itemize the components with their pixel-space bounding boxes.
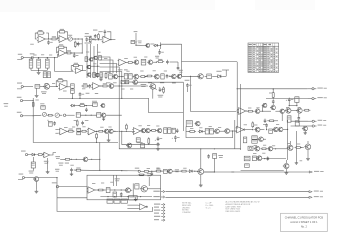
resistor R82 — [124, 74, 128, 79]
transistor Q12 — [108, 129, 113, 133]
resistor R19 — [127, 62, 134, 64]
resistor R93 — [31, 157, 35, 171]
potentiometer VR2 — [42, 112, 46, 116]
wire — [114, 85, 123, 86]
transistor Q53 — [100, 104, 105, 108]
wire — [100, 72, 122, 85]
svg-text:REF DWG 10423: REF DWG 10423 — [226, 211, 241, 213]
junction — [145, 76, 147, 77]
wire — [150, 130, 151, 131]
resistor R97 — [138, 173, 152, 176]
output terminal J15 — [309, 196, 323, 198]
capacitor C17 — [172, 135, 180, 139]
resistor R73 — [97, 189, 104, 191]
wire — [67, 87, 72, 89]
resistor R43 — [164, 128, 167, 134]
transistor Q45 — [254, 109, 260, 114]
wire — [54, 57, 74, 71]
op-amp U12 — [87, 187, 96, 193]
notes column 3 — [226, 201, 260, 213]
wire — [96, 138, 97, 143]
connector pin label — [153, 196, 164, 198]
input terminal J4 — [17, 83, 26, 90]
resistor R5 — [89, 36, 94, 43]
capacitor C24 — [286, 98, 294, 102]
wire — [290, 141, 308, 145]
enclosure box — [57, 198, 153, 212]
wire — [122, 98, 184, 112]
resistor R32 — [47, 114, 54, 116]
wire — [57, 54, 59, 57]
capacitor C1 — [47, 40, 52, 44]
wire — [100, 85, 102, 87]
resistor R45 — [136, 138, 140, 142]
transistor Q38 — [87, 73, 91, 77]
label — [63, 88, 85, 91]
wire — [262, 158, 286, 159]
wire — [99, 57, 110, 73]
svg-text:% = 5: % = 5 — [206, 207, 211, 209]
terminal J13 — [52, 182, 61, 187]
resistor R55 — [210, 129, 214, 134]
resistor R41 — [96, 133, 98, 140]
label — [175, 169, 179, 172]
transistor Q26 — [258, 137, 264, 142]
wire — [71, 52, 83, 53]
label — [158, 95, 164, 98]
resistor R44 — [168, 128, 171, 134]
label — [155, 56, 159, 59]
resistor R1 — [36, 30, 45, 34]
resistor R9 — [57, 44, 66, 48]
label — [29, 171, 34, 174]
transistor Q16 — [126, 143, 132, 148]
resistor R80 — [105, 72, 107, 79]
output terminal J14 — [309, 191, 323, 193]
wire — [31, 68, 47, 71]
resistor R20 — [141, 59, 146, 65]
label box — [244, 156, 250, 161]
label — [92, 182, 113, 184]
transistor Q47 — [270, 105, 275, 109]
resistor R14 — [29, 59, 33, 68]
op-amp U16 — [237, 108, 247, 115]
transistor Q24 — [285, 108, 291, 113]
resistor R39 — [77, 132, 81, 135]
label — [287, 143, 300, 144]
connector pin label — [154, 209, 165, 211]
resistor R75 — [113, 192, 117, 197]
connector pin label — [154, 212, 165, 214]
wire — [129, 82, 183, 131]
resistor R36 — [97, 113, 101, 118]
ground — [199, 183, 203, 187]
transistor Q28 — [267, 147, 272, 151]
label box — [114, 199, 120, 203]
output terminal J3 — [307, 97, 326, 100]
transistor Q29 — [287, 145, 293, 150]
transistor Q7 — [43, 84, 50, 90]
ground — [156, 147, 160, 151]
wire — [135, 33, 136, 46]
wire — [96, 189, 126, 190]
ground — [99, 75, 103, 81]
transistor Q43 — [171, 74, 177, 79]
resistor R28 — [101, 83, 108, 87]
wire — [237, 88, 308, 89]
transistor Q8 — [108, 84, 114, 89]
resistor R29 — [121, 80, 125, 83]
resistor R88 — [126, 124, 128, 132]
wire — [83, 70, 86, 72]
transistor Q6 — [197, 74, 203, 79]
transistor Q40 — [112, 74, 118, 79]
resistor R83 — [129, 74, 133, 79]
resistor R46 — [141, 144, 145, 148]
wire — [245, 129, 253, 130]
wire — [273, 88, 274, 105]
transistor Q42 — [153, 74, 159, 79]
wire — [35, 181, 37, 189]
resistor R57 — [269, 129, 273, 133]
resistor R26 — [71, 89, 75, 93]
wire — [32, 98, 34, 120]
wire — [165, 196, 309, 198]
label — [244, 124, 280, 125]
label — [218, 155, 223, 158]
resistor R78 — [93, 73, 96, 78]
connector pin label — [154, 203, 165, 205]
diode D7 — [30, 153, 36, 156]
wire — [113, 131, 118, 132]
wire — [25, 115, 42, 116]
ground — [295, 160, 303, 164]
label — [253, 153, 265, 154]
label — [134, 30, 138, 33]
label — [286, 106, 301, 109]
wire — [200, 149, 202, 183]
transistor Q31 — [256, 156, 262, 161]
resistor R23 — [35, 85, 40, 89]
wire — [148, 177, 150, 186]
wire — [291, 111, 299, 123]
capacitor C32 — [176, 129, 179, 133]
resistor R70 — [143, 170, 150, 172]
scan shading — [0, 0, 315, 12]
resistor R42b — [97, 130, 104, 132]
resistor R77 — [72, 63, 80, 67]
ground — [285, 171, 289, 175]
wire — [263, 110, 280, 112]
output terminal J9 — [308, 125, 326, 128]
capacitor C18 — [155, 137, 163, 142]
label — [118, 68, 128, 71]
potentiometer VR1 — [67, 35, 75, 41]
wire — [25, 100, 34, 101]
wire — [204, 171, 215, 173]
capacitor C25 — [298, 116, 301, 120]
capacitor C21 — [70, 168, 73, 172]
wire — [174, 140, 176, 142]
wire — [281, 113, 283, 121]
wire — [122, 131, 160, 144]
resistor R38 — [77, 128, 81, 131]
transistor Q5 — [136, 44, 154, 48]
label — [190, 126, 221, 129]
resistor R3 — [58, 29, 66, 33]
resistor R66 — [295, 147, 302, 149]
wire — [26, 57, 58, 58]
wire — [56, 81, 67, 87]
label — [55, 169, 59, 172]
transistor Q18 — [195, 121, 201, 126]
transistor Q11 — [103, 129, 108, 133]
resistor R42 — [150, 130, 157, 132]
wire — [100, 64, 117, 74]
capacitor C11 — [79, 92, 85, 96]
op-amp U17 — [43, 152, 51, 157]
transistor Q35 — [138, 204, 147, 210]
transistor Q52 — [140, 186, 147, 192]
transistor Q14 — [145, 128, 150, 132]
resistor R22 — [207, 74, 212, 79]
svg-text:CHANNEL C1 REGULATOR PCB: CHANNEL C1 REGULATOR PCB — [285, 216, 324, 220]
capacitor C7 — [30, 53, 35, 59]
transistor Q51 — [302, 126, 308, 131]
wire — [100, 196, 152, 197]
transistor Q9 — [132, 80, 138, 85]
resistor R49 — [64, 158, 71, 160]
label — [115, 178, 120, 181]
op-amp U1 — [37, 36, 47, 43]
wire — [58, 32, 68, 39]
wire — [214, 158, 215, 172]
label — [141, 84, 147, 87]
wire — [56, 178, 58, 198]
op-amp U14 — [74, 68, 82, 74]
capacitor C4 — [93, 30, 97, 39]
resistor R54 — [205, 129, 209, 134]
resistor R84 — [139, 76, 146, 78]
wire — [47, 120, 49, 121]
resistor R16 — [46, 59, 50, 68]
capacitor C15 — [40, 103, 45, 109]
resistor R81 — [109, 74, 113, 79]
wire — [222, 70, 229, 76]
capacitor C8 — [166, 60, 169, 64]
resistor R24 — [56, 78, 64, 82]
wire — [266, 128, 267, 131]
wire — [231, 171, 234, 173]
label box — [121, 199, 127, 203]
transistor Q19 — [214, 129, 220, 134]
enclosure box — [179, 62, 237, 77]
wire — [291, 120, 308, 122]
transistor Q10 — [149, 84, 157, 90]
ground — [70, 172, 73, 175]
capacitor C33 — [264, 119, 267, 123]
capacitor C30 — [166, 74, 169, 78]
label — [138, 125, 159, 126]
wire — [26, 86, 34, 88]
op-amp U11 — [235, 126, 245, 133]
op-amp U3 — [102, 36, 112, 43]
wire — [241, 169, 284, 171]
label — [93, 58, 107, 64]
op-amp U8 — [59, 128, 69, 135]
resistor R85 — [146, 75, 153, 77]
op-amp U4 — [57, 50, 67, 57]
wire — [291, 125, 308, 127]
ground — [37, 70, 41, 74]
label — [107, 70, 167, 72]
op-amp U2 — [58, 36, 68, 43]
wire — [186, 130, 237, 131]
wire — [57, 47, 67, 53]
terminal J6 — [17, 112, 25, 117]
resistor R6 — [98, 33, 100, 40]
wire — [257, 138, 266, 140]
table frame — [248, 43, 279, 72]
resistor R27 — [81, 83, 89, 87]
wire — [283, 129, 288, 130]
op-amp U15 — [87, 128, 97, 135]
resistor R67 — [252, 156, 256, 161]
wire — [55, 130, 58, 134]
transistor Q4 — [147, 60, 153, 65]
wire — [246, 110, 247, 112]
connector pin label — [154, 206, 165, 208]
capacitor C28 — [151, 172, 154, 176]
transistor Q32 — [283, 163, 289, 168]
transistor Q54 — [100, 113, 105, 117]
label — [254, 145, 276, 146]
ground — [306, 156, 310, 160]
transistor Q48 — [279, 109, 284, 113]
transistor Q13 — [140, 128, 145, 132]
label — [106, 82, 176, 83]
capacitor C16 — [85, 108, 88, 112]
resistor R18 — [47, 72, 50, 78]
potentiometer VR3 — [55, 113, 59, 117]
notes column 1 — [182, 202, 192, 214]
diode D6 — [188, 170, 194, 173]
wire — [260, 129, 264, 131]
wire — [71, 66, 82, 71]
capacitor C12 — [89, 84, 92, 88]
title block — [281, 213, 328, 231]
resistor R86 — [161, 74, 164, 79]
wire — [60, 159, 100, 160]
wire — [186, 88, 188, 92]
resistor R96 — [295, 121, 299, 126]
wire — [130, 189, 160, 190]
wire — [143, 171, 198, 172]
resistor R21 — [157, 59, 165, 63]
transistor Q34 — [125, 188, 131, 193]
op-amp U9 — [132, 128, 142, 135]
capacitor C6 — [73, 53, 79, 57]
wire — [74, 170, 139, 172]
label box — [129, 196, 138, 200]
resistor R76 — [135, 184, 139, 189]
transistor Q3 — [133, 60, 139, 65]
svg-text:control 1 SHEET 1 OF 1: control 1 SHEET 1 OF 1 — [290, 220, 318, 224]
label — [86, 52, 101, 53]
junction — [91, 66, 100, 67]
wire — [153, 62, 157, 63]
resistor R98 — [32, 100, 39, 108]
wire — [67, 114, 74, 116]
terminal J12 — [18, 174, 27, 180]
wire — [119, 127, 240, 149]
resistor R33 — [78, 103, 86, 107]
capacitor C31 — [81, 120, 88, 125]
transistor Q33 — [197, 169, 204, 175]
ground — [35, 189, 39, 193]
label — [100, 127, 111, 128]
label — [30, 43, 34, 46]
wire — [60, 186, 87, 188]
label box — [107, 199, 113, 203]
resistor R58 — [269, 91, 274, 99]
output terminal J10 — [309, 171, 323, 173]
terminal J11 — [135, 168, 143, 173]
resistor R89 — [172, 128, 175, 133]
capacitor C26 — [267, 156, 270, 160]
resistor R61 — [287, 116, 291, 122]
label — [58, 163, 73, 166]
transistor Q22 — [273, 127, 279, 132]
resistor R11 — [85, 57, 88, 62]
resistor R94 — [151, 169, 162, 173]
label — [33, 53, 52, 56]
wire — [127, 205, 138, 208]
capacitor C27 — [207, 154, 210, 158]
capacitor C22 — [265, 123, 268, 127]
wire — [159, 42, 161, 49]
wire — [170, 62, 178, 66]
transistor Q36 — [93, 56, 97, 60]
diode D3 — [70, 104, 76, 107]
wire — [47, 38, 52, 39]
enclosure box — [33, 120, 118, 143]
resistor R68 — [213, 154, 217, 159]
label — [121, 88, 133, 91]
terminal J5 — [17, 97, 25, 102]
wire — [204, 171, 310, 173]
wire — [100, 67, 120, 127]
resistor R65 — [260, 148, 267, 150]
diode D5 — [198, 130, 204, 133]
resistor R90 — [247, 110, 254, 112]
wire — [27, 177, 58, 178]
resistor R71 — [180, 170, 187, 172]
wire — [182, 76, 227, 77]
wire — [165, 191, 309, 193]
wire — [57, 197, 87, 199]
wire — [161, 44, 182, 61]
transistor Q44 — [176, 74, 181, 78]
connector pin label — [153, 190, 164, 192]
wire — [260, 106, 263, 112]
capacitor C2 — [77, 42, 83, 46]
ground — [107, 134, 111, 142]
capacitor C23 — [272, 99, 275, 103]
node bus — [114, 175, 117, 186]
transistor Q23 — [277, 127, 283, 132]
resistor R53 — [188, 130, 196, 132]
